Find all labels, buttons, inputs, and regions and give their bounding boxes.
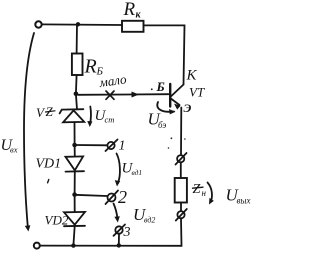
svg-text:VT: VT — [189, 85, 205, 100]
node bottom junction (left diode branch) — [71, 243, 75, 247]
svg-text:3: 3 — [123, 225, 131, 240]
svg-text:Э: Э — [184, 101, 192, 115]
contact 2 (slashed circle) — [108, 194, 116, 202]
wire: Zн to contact B — [180, 203, 182, 211]
svg-text:1: 1 — [119, 139, 126, 154]
diode VD2 — [74, 195, 76, 212]
wire top: terminal to Rk — [42, 23, 122, 26]
wire tap 2 — [75, 195, 107, 196]
ink specks — [171, 137, 173, 139]
wire: RБ to base node — [75, 75, 78, 94]
diode VD1 — [74, 145, 76, 157]
node 2 junction — [72, 192, 77, 197]
node 1 junction — [72, 143, 77, 148]
svg-text:вд2: вд2 — [144, 216, 155, 225]
svg-text:вых: вых — [237, 196, 251, 206]
contact 3 (slashed circle) — [115, 226, 122, 233]
label U_вд2 with curved arrow (2 to 3) — [114, 204, 118, 220]
node base junction — [74, 92, 79, 97]
label U_вд1 with curved arrow (1 to 2) — [117, 154, 120, 184]
input terminal (top left) — [35, 21, 41, 27]
label U_бэ with curved arrow — [157, 102, 174, 112]
resistor RБ — [72, 54, 83, 76]
transistor VT — [171, 85, 184, 97]
wire: junction down to RБ — [76, 24, 78, 53]
svg-text:К: К — [186, 68, 198, 84]
svg-text:VD2: VD2 — [45, 213, 69, 228]
node on bottom wire below 3 — [117, 243, 121, 247]
svg-text:VD1: VD1 — [36, 157, 62, 172]
wire: Rk to collector corner and down — [144, 25, 185, 84]
wire: base node to transistor base, with X mark and arrow — [78, 93, 169, 96]
svg-text:Б: Б — [156, 79, 165, 94]
contact A (slashed circle, emitter branch) — [177, 155, 184, 162]
svg-text:ст: ст — [105, 115, 115, 125]
svg-text:бэ: бэ — [158, 120, 166, 130]
wire tap 1 — [75, 144, 108, 146]
wire: contact 3 to bottom — [118, 234, 120, 246]
label U_вх with long curved arrow — [24, 33, 34, 227]
label U_ст with down arrow — [90, 107, 91, 125]
svg-text:R: R — [123, 0, 136, 20]
contact 1 (slashed circle) — [107, 142, 114, 149]
load Zн — [175, 178, 187, 203]
svg-text:н: н — [202, 188, 207, 198]
zener diode VZ — [76, 94, 77, 110]
svg-text:R: R — [84, 56, 97, 78]
node top junction — [76, 22, 80, 26]
svg-text:вд1: вд1 — [132, 168, 143, 177]
wire: contact B down, corner, bottom wire to terminal — [40, 218, 182, 246]
svg-text:Z: Z — [193, 182, 201, 197]
resistor Rk — [122, 21, 144, 32]
svg-text:вх: вх — [10, 145, 18, 155]
wire: contact A to Zн — [180, 162, 182, 178]
output terminal (bottom left) — [34, 243, 40, 249]
svg-text:2: 2 — [118, 187, 127, 207]
contact B (slashed circle) — [177, 211, 184, 218]
curved arrow right of Zн — [208, 183, 212, 203]
